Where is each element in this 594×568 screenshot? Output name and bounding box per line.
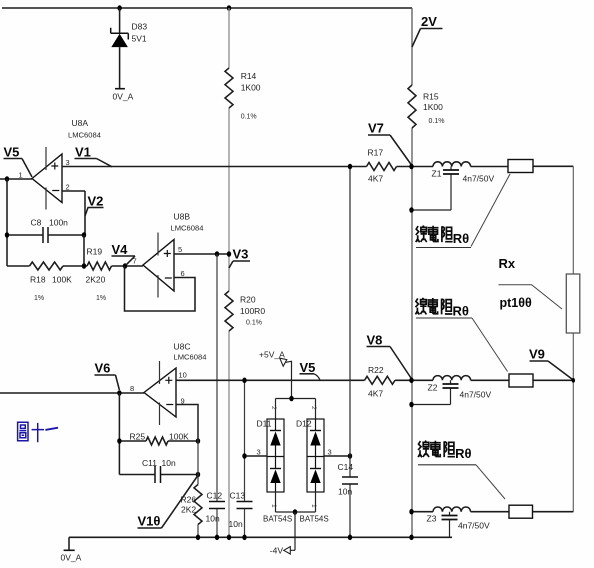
svg-text:R17: R17 [368,148,384,158]
svg-text:0.1%: 0.1% [241,114,257,121]
node top-rail / D83 junction [117,5,121,11]
resistor R19 [86,247,144,303]
node U8A output junction [5,176,9,182]
svg-text:LMC6084: LMC6084 [171,224,204,233]
svg-text:pt1θθ: pt1θθ [500,296,533,310]
wire V5 row (U8C pin10) [176,379,573,381]
svg-text:V4: V4 [112,242,129,257]
node C8 left [5,232,9,238]
svg-text:LMC6084: LMC6084 [68,131,101,140]
node V8 junction [409,378,413,384]
node R25 left [117,438,121,444]
resistor R18 [7,262,87,302]
resistor R0 box (bottom) [509,505,533,518]
svg-text:Rx: Rx [499,256,516,271]
wire bottom rail [69,536,452,538]
node V3 / C12 top [215,251,219,257]
resistor R15 [408,85,444,128]
node V3 / center rail [227,251,231,257]
svg-text:C8: C8 [31,218,42,228]
svg-text:R15: R15 [423,92,439,102]
net label V7 [368,121,412,166]
resistor R0 box (middle) [509,374,533,387]
svg-text:V3: V3 [233,247,249,262]
svg-text:1: 1 [19,171,23,180]
svg-text:100R0: 100R0 [240,306,265,316]
svg-text:2: 2 [310,406,317,410]
svg-text:LMC6084: LMC6084 [174,353,207,362]
net label V10 [138,476,198,529]
svg-text:V6: V6 [95,361,111,376]
node Z3 row / 2V rail [409,509,413,515]
node Z2 cap return [409,402,413,408]
svg-text:0V_A: 0V_A [61,553,82,563]
node V1/R17 junction [348,164,352,170]
capacitor C14 [338,167,359,538]
svg-text:V7: V7 [368,121,384,136]
resistor R14 [225,68,261,121]
wire diode top jumper [276,399,316,420]
svg-text:C12: C12 [207,491,223,501]
svg-text:R18: R18 [30,275,46,285]
node D11 pin3 / C13 [242,453,246,459]
svg-text:2V: 2V [421,14,437,29]
svg-text:3: 3 [66,158,70,167]
wire top rail [2,7,412,9]
wire V2 node down to R18 row [83,235,85,266]
svg-text:0V_A: 0V_A [113,92,134,102]
svg-text:1%: 1% [96,295,106,302]
capacitor C13 [229,380,253,537]
wire U8A pin2 to V2 node [62,191,85,235]
figure caption 圖十一 (blue) [18,422,58,442]
net label V5 (left) [4,145,33,178]
resistor Rx pt100 box [566,274,580,333]
svg-text:R25: R25 [130,432,146,442]
inductor Z3 with capacitor 4n7/50V [427,507,574,537]
inductor Z1 with capacitor 4n7/50V [412,162,494,210]
svg-text:C13: C13 [230,491,246,501]
net label V2 [85,194,104,217]
svg-text:D11: D11 [257,419,272,429]
net label V5 (right) [300,360,321,380]
label Rx [499,256,563,309]
label wire-resistance R0 #3 [418,441,505,500]
capacitor C8 [7,218,84,244]
svg-text:2: 2 [270,406,277,410]
svg-text:V9: V9 [529,347,545,362]
svg-text:100n: 100n [49,218,68,228]
svg-text:-4V: -4V [270,546,284,556]
svg-text:3: 3 [328,448,332,457]
inductor Z2 with capacitor 4n7/50V [412,376,491,405]
svg-text:5V1: 5V1 [132,34,147,44]
svg-text:V1: V1 [75,145,91,160]
resistor R25 [119,432,198,446]
svg-text:Rθ: Rθ [453,303,469,318]
svg-text:4n7/50V: 4n7/50V [458,521,490,531]
node bottom R26 [196,535,200,541]
diode D12 (BAT54S) [296,406,329,524]
node bottom C13 [242,535,246,541]
svg-text:4K7: 4K7 [368,174,383,184]
ground 0V_A (top) [113,89,134,102]
wire D11 pin3 to C13 column [245,455,268,457]
wire U8B pin5 to V3 [174,253,229,255]
svg-text:10n: 10n [229,519,243,529]
svg-text:4n7/50V: 4n7/50V [460,390,492,400]
svg-text:4n7/50V: 4n7/50V [463,174,495,184]
wire V6 row to left edge [0,392,144,394]
net label 2V [412,14,443,47]
svg-text:100K: 100K [169,432,189,442]
capacitor C11 [119,458,198,483]
svg-text:BAT54S: BAT54S [263,515,292,524]
ground 0V_A (bottom) [61,537,82,562]
node C8 right / V2 [82,232,86,238]
wire 2V rail [411,8,413,537]
svg-text:D83: D83 [132,22,148,32]
net label V6 [95,361,120,391]
svg-text:U8A: U8A [72,118,89,128]
resistor R0 box (top) [508,160,533,173]
svg-text:Z2: Z2 [428,383,438,393]
svg-text:7: 7 [133,257,137,266]
node V4 junction (U8B pin7) [123,263,127,269]
wire right rail [572,166,574,511]
svg-text:5: 5 [178,245,182,254]
label wire-resistance R0 #2 [416,298,508,372]
diode D11 (BAT54S) [257,406,293,524]
node V9 junction [572,378,575,383]
wire Z3 row left [412,511,433,513]
svg-text:U8B: U8B [174,212,191,222]
zener diode D83 [111,8,148,89]
node C11 right / V10 [196,472,200,478]
svg-text:Z3: Z3 [427,514,437,524]
net label V9 [529,347,573,381]
resistor R22 [365,365,395,399]
op-amp U8C [130,342,206,426]
svg-text:V8: V8 [367,333,383,348]
node V6 junction [117,390,121,396]
node +5V_A junction [289,396,293,402]
node bottom C14 [348,535,352,541]
wire center rail upper [228,8,230,537]
wire U8B pin6 feedback loop [125,266,196,311]
svg-text:8: 8 [130,384,134,393]
svg-text:10n: 10n [338,487,352,497]
wire U8A feedback left leg [6,179,8,266]
node R18/R19 junction [82,263,86,269]
svg-text:0.1%: 0.1% [246,320,262,327]
node D12 pin3 / C14 [348,453,352,459]
svg-text:R20: R20 [240,295,256,305]
svg-text:C14: C14 [338,462,354,472]
capacitor C12 [206,254,226,537]
svg-text:10n: 10n [206,514,220,524]
op-amp U8A [19,118,101,210]
resistor R26 [181,405,203,538]
wire V1 row (U8A pin3) [62,165,573,167]
svg-text:2: 2 [66,183,70,192]
node bottom 2V rail [409,535,413,541]
svg-text:1K00: 1K00 [241,83,261,93]
svg-text:2K2: 2K2 [181,505,196,515]
svg-text:C11: C11 [142,458,157,468]
node bottom center rail [227,535,231,541]
node R25 right [196,438,200,444]
svg-text:R19: R19 [87,247,103,257]
node V5 row / C13 top [242,378,246,384]
net label V8 [367,333,412,379]
svg-text:6: 6 [181,269,185,278]
node Z1 cap return [409,207,413,213]
resistor R20 [225,291,265,331]
power -4V [270,512,295,556]
wire V6 node down [118,393,120,475]
power +5V_A [259,350,292,399]
wire D12 pin3 to C14 column [324,455,350,457]
node bottom C12 [215,535,219,541]
svg-text:R22: R22 [368,365,384,375]
net label V4 [112,242,136,265]
net label V1 [75,145,113,167]
op-amp U8B [133,212,204,298]
node top-rail / R14 junction [227,5,231,11]
node V7 junction [409,164,413,170]
net label V3 [229,247,250,269]
svg-text:BAT54S: BAT54S [300,515,329,524]
svg-text:U8C: U8C [174,342,191,352]
svg-text:V5: V5 [4,145,20,160]
svg-text:1%: 1% [34,295,44,302]
svg-text:100K: 100K [52,275,72,285]
svg-text:1K00: 1K00 [423,102,443,112]
svg-text:0.1%: 0.1% [429,118,445,125]
svg-text:Rθ: Rθ [455,446,471,461]
svg-text:2K20: 2K20 [86,275,106,285]
svg-text:10n: 10n [162,458,176,468]
svg-text:Z1: Z1 [432,169,442,179]
wire diode bottom jumper [276,492,316,512]
svg-text:V2: V2 [88,194,104,209]
wire U8C pin9 to R25 row [176,405,198,442]
svg-text:V5: V5 [300,360,316,375]
svg-text:D12: D12 [296,419,312,429]
svg-text:3: 3 [257,448,261,457]
label wire-resistance R0 #1 [416,174,510,248]
svg-text:4K7: 4K7 [368,389,383,399]
svg-text:10: 10 [179,371,187,380]
resistor R17 [367,148,397,184]
wire U8A output to left edge [0,178,32,180]
svg-text:V1θ: V1θ [138,514,161,529]
svg-text:R14: R14 [241,71,257,81]
node -4V junction [293,509,297,515]
svg-text:Rθ: Rθ [453,231,469,246]
